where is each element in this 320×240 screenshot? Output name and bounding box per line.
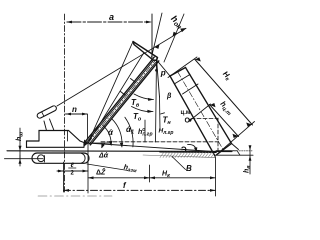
angle arc alpha1 (r=45) — [125, 117, 133, 147]
exhaust legs — [44, 121, 47, 131]
svg-text:ц.м: ц.м — [181, 110, 191, 116]
faint lower dash-dot — [38, 195, 112, 197]
track (crawler) — [32, 153, 89, 163]
angle arc alpha (r=23) — [103, 125, 112, 144]
ground dotted right — [232, 150, 252, 152]
extension line left (dash-dot vertical x=64.5) — [64, 14, 66, 192]
dimension h_v (right) — [249, 145, 252, 174]
bottom dimension f (dash-dot) — [64, 157, 216, 196]
svg-text:a: a — [109, 12, 114, 22]
vertical extension x=88 down — [87, 143, 89, 193]
svg-text:Δά: Δά — [98, 153, 109, 160]
ground line left — [5, 158, 44, 160]
cab outline — [27, 131, 89, 148]
band axis dash-dot — [178, 72, 224, 150]
dimension h_op (small diagonal top) — [152, 13, 185, 62]
band right edge — [186, 68, 232, 144]
lower ground line right — [217, 154, 253, 156]
delta-alpha lines at pivot: horizontal and descending to hinge — [88, 142, 110, 144]
dashed vertical x=219 — [217, 118, 219, 151]
dimension N_k (diagonal) — [168, 57, 255, 156]
hydraulic cylinder band F(88,143)->T(152,60) — [86, 57, 159, 145]
dimension a (top, dash-dot) — [66, 21, 152, 24]
dimension h_sh (left) — [19, 128, 22, 159]
svg-text:n: n — [72, 105, 77, 114]
svg-text:ΔZ̄: ΔZ̄ — [96, 168, 106, 177]
T_o label and arc — [132, 107, 154, 112]
extension line right (vertical x=152) — [151, 14, 153, 58]
fan lines from pivot F — [88, 42, 133, 144]
svg-text:β: β — [166, 93, 172, 100]
svg-text:В: В — [186, 164, 192, 173]
sloping leader to h_azm — [87, 164, 128, 171]
band bottom edge — [215, 144, 232, 157]
sight line from exhaust to top — [57, 28, 186, 106]
dimension h_ts.t (diagonal inner) — [191, 103, 239, 138]
tipped body band — [157, 61, 232, 157]
ground hatch band — [160, 152, 216, 158]
vertical ref segment x=145 — [144, 120, 146, 142]
machine: exhaust pipe — [36, 105, 57, 119]
band left edge — [170, 76, 215, 156]
T_v label and arc — [134, 94, 154, 100]
force P line (tilted vertical from apex) — [157, 59, 160, 97]
dimension n — [66, 113, 88, 138]
dashed line y=141.5 — [101, 141, 219, 143]
pivot bracket at F — [84, 140, 89, 147]
delta-alpha small arc — [102, 143, 105, 147]
ground line main — [7, 150, 232, 153]
angle arc alpha (r=34) — [112, 119, 122, 146]
band top edge — [170, 68, 186, 77]
partition 1 — [174, 74, 190, 84]
canopy (body visor blade) — [133, 42, 158, 61]
second near-vertical line from apex — [156, 59, 157, 142]
berm tail right of hinge — [232, 144, 239, 150]
bottom dimension row delta-Z / N_k — [88, 165, 216, 182]
dashed line y=118 from O to right — [191, 118, 218, 120]
partition 2 — [183, 84, 199, 94]
bottom dimension l/2 — [57, 162, 88, 192]
